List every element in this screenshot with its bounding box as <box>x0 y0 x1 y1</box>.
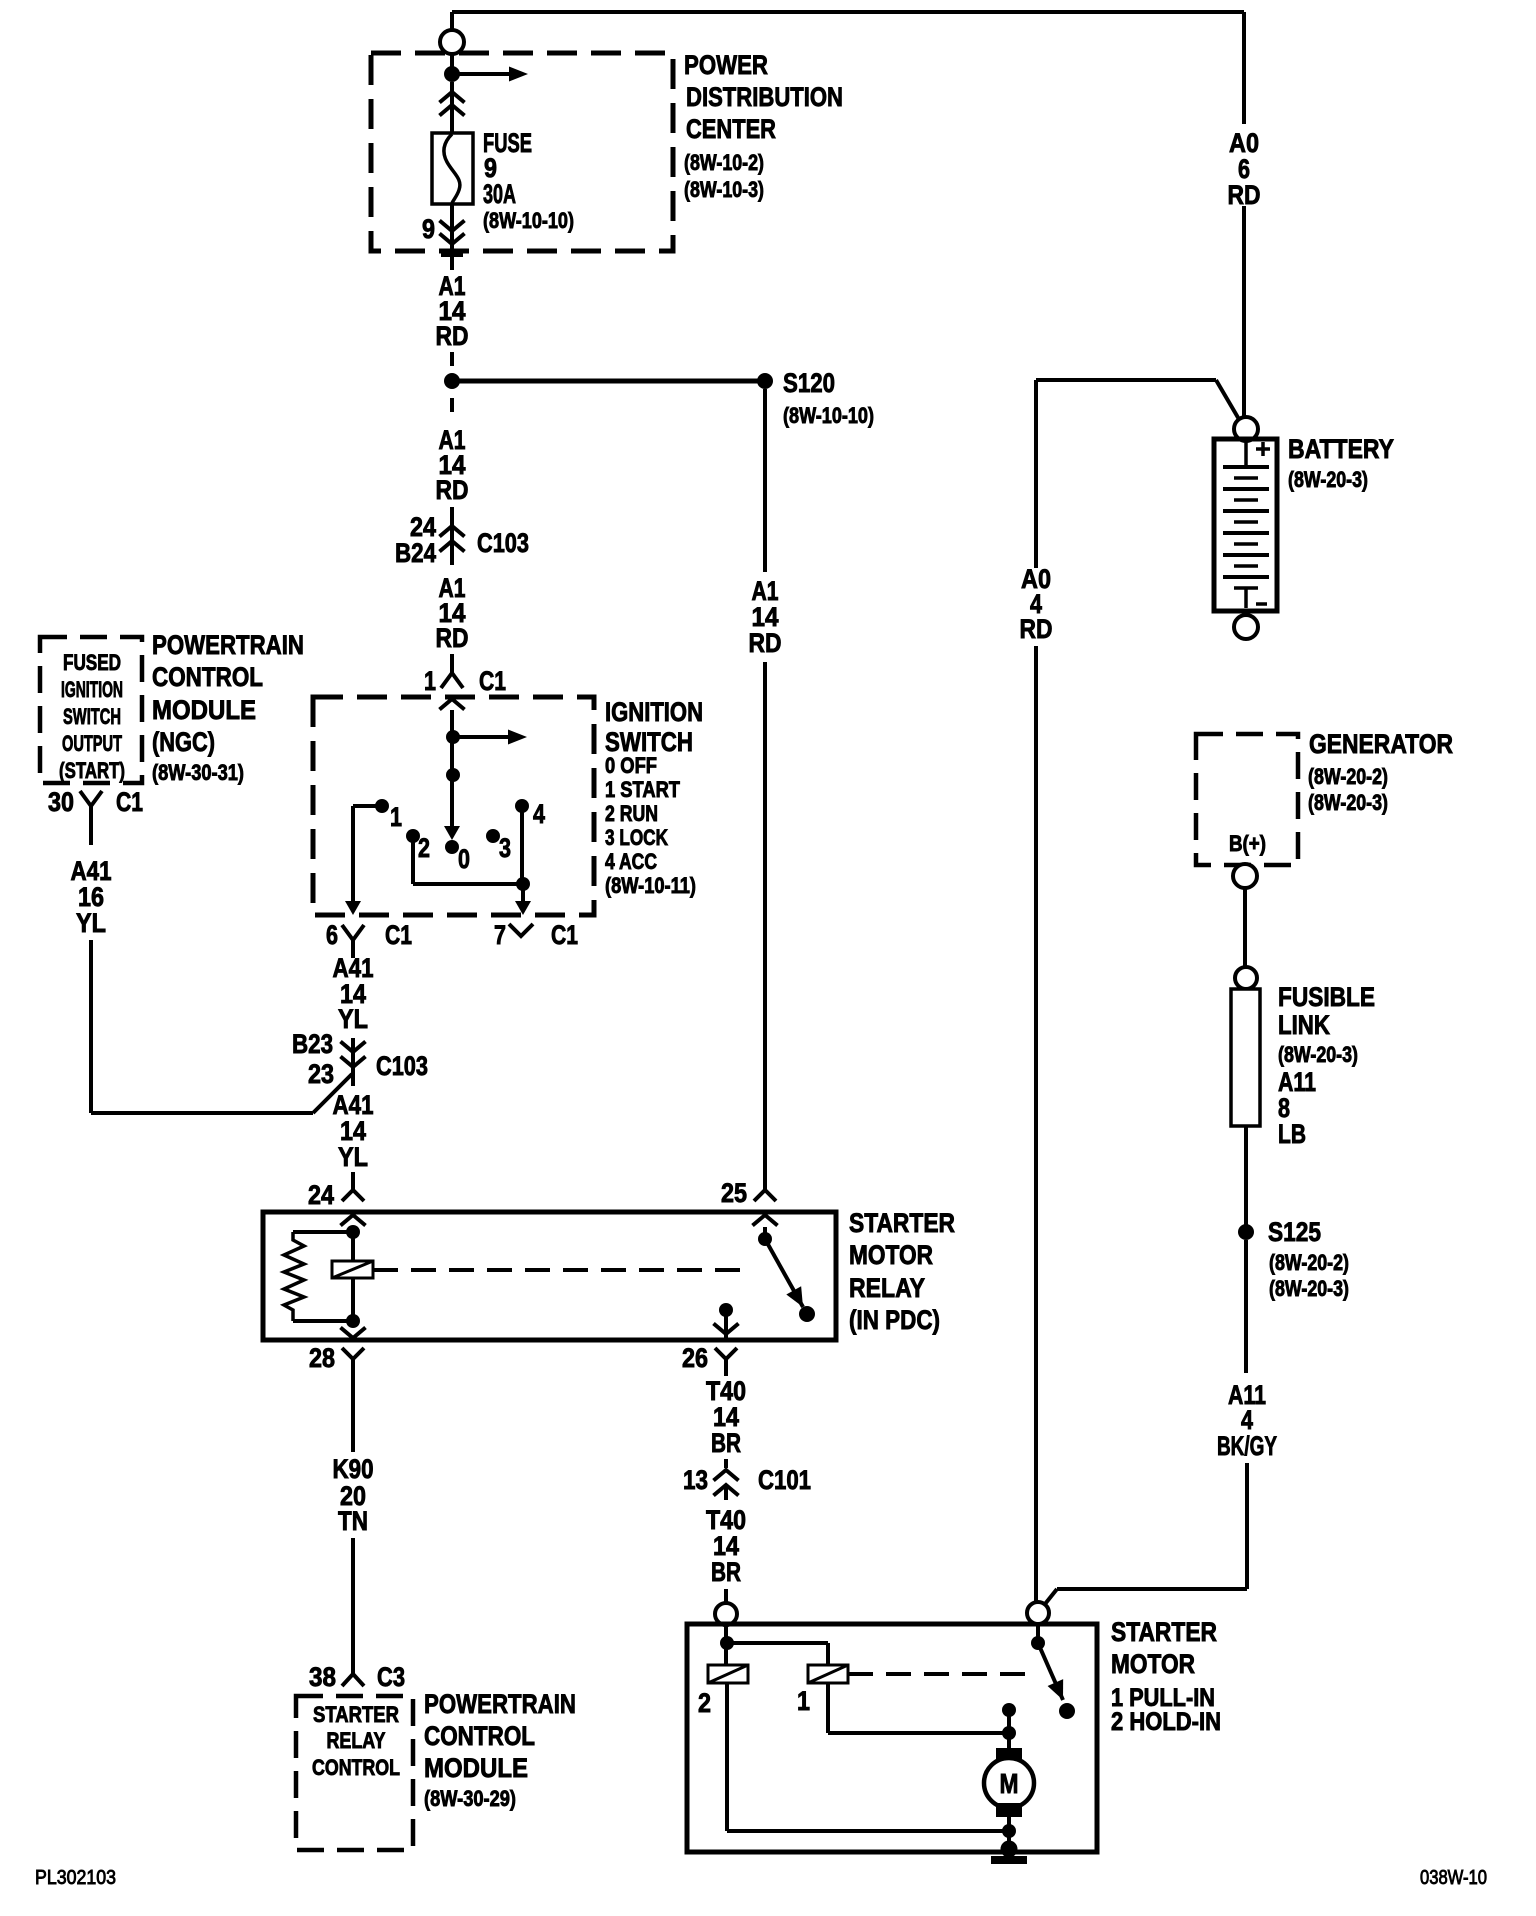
svg-text:POWERTRAIN: POWERTRAIN <box>152 630 304 660</box>
svg-text:B23: B23 <box>292 1029 333 1059</box>
svg-text:BATTERY: BATTERY <box>1288 434 1394 464</box>
svg-text:STARTER: STARTER <box>313 1702 399 1727</box>
svg-text:CONTROL: CONTROL <box>152 662 263 692</box>
svg-text:(8W-20-3): (8W-20-3) <box>1308 790 1388 815</box>
svg-text:(START): (START) <box>59 758 125 783</box>
svg-text:STARTER: STARTER <box>1111 1617 1217 1647</box>
svg-text:(8W-10-3): (8W-10-3) <box>684 177 764 202</box>
svg-text:RD: RD <box>436 623 469 653</box>
svg-text:38: 38 <box>309 1662 336 1692</box>
svg-text:(8W-20-3): (8W-20-3) <box>1269 1276 1349 1301</box>
svg-text:1: 1 <box>424 666 436 696</box>
svg-text:3: 3 <box>499 833 511 863</box>
svg-text:(8W-20-3): (8W-20-3) <box>1278 1042 1358 1067</box>
svg-text:2 RUN: 2 RUN <box>605 801 658 826</box>
svg-text:038W-10: 038W-10 <box>1420 1867 1487 1889</box>
svg-text:C3: C3 <box>377 1662 405 1692</box>
svg-text:1: 1 <box>797 1686 810 1716</box>
svg-text:0 OFF: 0 OFF <box>605 753 657 778</box>
svg-text:RD: RD <box>749 628 782 658</box>
svg-text:M: M <box>1000 1768 1019 1799</box>
svg-text:(8W-10-10): (8W-10-10) <box>483 208 574 233</box>
svg-text:(8W-20-2): (8W-20-2) <box>1269 1250 1349 1275</box>
svg-text:C1: C1 <box>551 920 578 950</box>
svg-text:30A: 30A <box>483 179 516 209</box>
svg-text:RELAY: RELAY <box>327 1728 386 1753</box>
svg-text:RD: RD <box>436 475 469 505</box>
svg-text:6: 6 <box>326 920 338 950</box>
svg-text:1 START: 1 START <box>605 777 680 802</box>
svg-text:C101: C101 <box>758 1465 811 1495</box>
svg-text:24: 24 <box>308 1180 334 1210</box>
svg-text:(8W-10-2): (8W-10-2) <box>684 150 764 175</box>
svg-text:(NGC): (NGC) <box>152 727 215 757</box>
svg-text:YL: YL <box>338 1142 368 1172</box>
svg-text:13: 13 <box>683 1465 708 1495</box>
svg-text:LINK: LINK <box>1278 1010 1330 1040</box>
svg-text:GENERATOR: GENERATOR <box>1309 729 1453 759</box>
svg-text:RD: RD <box>1228 180 1261 210</box>
svg-text:B(+): B(+) <box>1229 831 1266 856</box>
svg-text:CONTROL: CONTROL <box>424 1721 535 1751</box>
svg-text:7: 7 <box>494 920 506 950</box>
svg-text:2 HOLD-IN: 2 HOLD-IN <box>1111 1708 1221 1736</box>
svg-text:S120: S120 <box>783 368 835 398</box>
svg-text:C1: C1 <box>116 787 143 817</box>
svg-text:RELAY: RELAY <box>849 1273 925 1303</box>
svg-text:C1: C1 <box>479 666 506 696</box>
svg-text:RD: RD <box>436 321 469 351</box>
svg-text:4: 4 <box>533 799 545 829</box>
svg-text:OUTPUT: OUTPUT <box>62 731 122 756</box>
svg-text:CONTROL: CONTROL <box>312 1755 400 1780</box>
svg-text:2: 2 <box>418 833 430 863</box>
svg-text:PL302103: PL302103 <box>35 1867 116 1889</box>
svg-text:LB: LB <box>1278 1119 1306 1149</box>
svg-text:CENTER: CENTER <box>686 114 776 144</box>
svg-text:MOTOR: MOTOR <box>1111 1649 1195 1679</box>
svg-text:BK/GY: BK/GY <box>1217 1431 1277 1461</box>
svg-text:STARTER: STARTER <box>849 1208 955 1238</box>
svg-text:(8W-30-31): (8W-30-31) <box>152 760 244 785</box>
svg-text:(8W-10-10): (8W-10-10) <box>783 403 874 428</box>
svg-text:(8W-10-11): (8W-10-11) <box>605 873 696 898</box>
svg-text:28: 28 <box>309 1343 335 1373</box>
svg-text:MOTOR: MOTOR <box>849 1240 933 1270</box>
svg-text:YL: YL <box>76 908 106 938</box>
svg-text:K90: K90 <box>333 1454 374 1484</box>
svg-text:C1: C1 <box>385 920 412 950</box>
svg-text:3 LOCK: 3 LOCK <box>605 825 668 850</box>
svg-text:SWITCH: SWITCH <box>63 704 121 729</box>
svg-text:POWERTRAIN: POWERTRAIN <box>424 1689 576 1719</box>
svg-text:1: 1 <box>390 802 402 832</box>
svg-text:(IN PDC): (IN PDC) <box>849 1305 940 1335</box>
svg-text:0: 0 <box>458 844 470 874</box>
svg-text:POWER: POWER <box>684 50 768 80</box>
svg-text:C103: C103 <box>376 1051 428 1081</box>
svg-text:25: 25 <box>721 1178 747 1208</box>
svg-text:DISTRIBUTION: DISTRIBUTION <box>686 82 843 112</box>
svg-text:IGNITION: IGNITION <box>61 677 123 702</box>
svg-text:4 ACC: 4 ACC <box>605 849 657 874</box>
svg-text:MODULE: MODULE <box>424 1753 528 1783</box>
svg-text:FUSED: FUSED <box>63 650 121 675</box>
svg-text:IGNITION: IGNITION <box>605 697 703 727</box>
svg-text:(8W-20-2): (8W-20-2) <box>1308 764 1388 789</box>
svg-text:RD: RD <box>1020 614 1053 644</box>
svg-text:BR: BR <box>711 1557 741 1587</box>
svg-text:FUSIBLE: FUSIBLE <box>1278 982 1375 1012</box>
svg-text:BR: BR <box>711 1428 741 1458</box>
svg-text:30: 30 <box>48 787 74 817</box>
svg-text:S125: S125 <box>1268 1217 1321 1247</box>
svg-text:C103: C103 <box>477 528 529 558</box>
svg-text:TN: TN <box>338 1506 368 1536</box>
svg-text:MODULE: MODULE <box>152 695 256 725</box>
svg-text:9: 9 <box>422 214 435 244</box>
svg-text:23: 23 <box>308 1059 334 1089</box>
svg-text:B24: B24 <box>395 538 436 568</box>
svg-text:2: 2 <box>698 1688 711 1718</box>
svg-text:26: 26 <box>682 1343 708 1373</box>
svg-text:YL: YL <box>338 1004 368 1034</box>
svg-text:(8W-20-3): (8W-20-3) <box>1288 467 1368 492</box>
svg-text:(8W-30-29): (8W-30-29) <box>424 1786 516 1811</box>
